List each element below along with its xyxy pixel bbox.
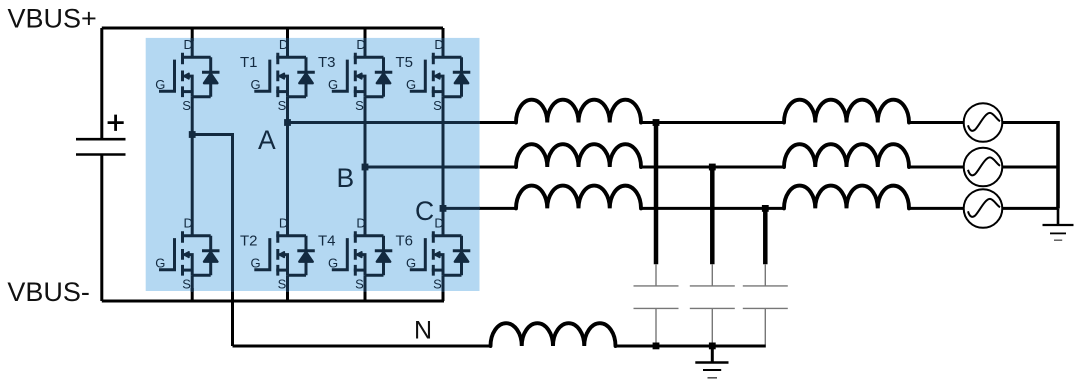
svg-text:N: N [414,317,432,345]
svg-text:B: B [337,163,355,193]
svg-text:T5: T5 [396,54,414,71]
svg-text:VBUS-: VBUS- [7,277,90,307]
svg-text:T1: T1 [240,54,258,71]
svg-text:A: A [258,125,276,155]
svg-text:T2: T2 [240,232,258,249]
svg-text:VBUS+: VBUS+ [8,4,97,34]
svg-text:T3: T3 [318,54,336,71]
svg-text:T6: T6 [396,232,414,249]
svg-text:T4: T4 [318,232,336,249]
svg-text:C: C [415,196,434,226]
